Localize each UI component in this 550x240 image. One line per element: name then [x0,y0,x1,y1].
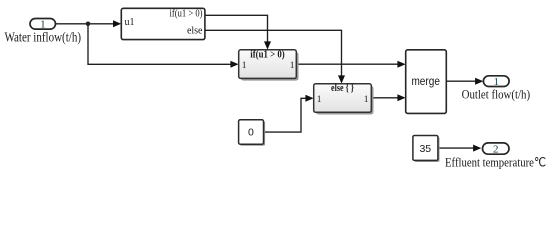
svg-text:else: else [187,26,203,37]
svg-text:if(u1 > 0): if(u1 > 0) [170,9,203,20]
svg-text:1: 1 [40,18,46,30]
svg-text:Outlet flow(t/h): Outlet flow(t/h) [462,88,530,102]
svg-text:0: 0 [248,126,254,138]
svg-text:1: 1 [242,61,247,71]
svg-text:1: 1 [290,61,295,71]
svg-text:Water inflow(t/h): Water inflow(t/h) [5,31,82,46]
svg-text:1: 1 [364,95,369,105]
svg-text:1: 1 [493,76,499,88]
svg-text:u1: u1 [125,17,135,28]
svg-text:if(u1 > 0): if(u1 > 0) [250,49,285,60]
svg-text:1: 1 [317,95,322,105]
svg-text:35: 35 [419,143,431,155]
svg-text:else { }: else { } [331,83,354,94]
svg-text:Effluent temperature℃: Effluent temperature℃ [445,155,546,170]
svg-text:merge: merge [411,76,440,88]
